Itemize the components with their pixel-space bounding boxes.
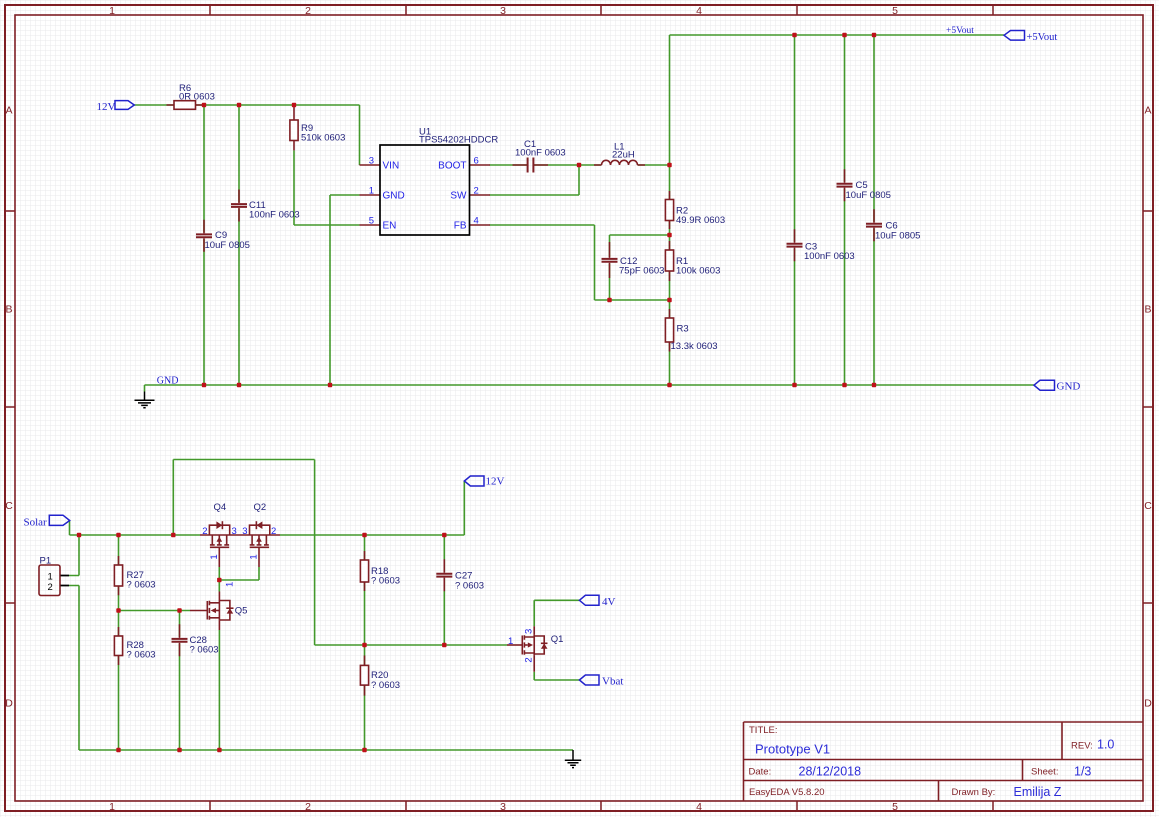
svg-text:1.0: 1.0 <box>1097 738 1114 752</box>
junction C11/12V rail <box>237 103 241 107</box>
junction C28 gate node <box>177 608 181 612</box>
label C3 and value <box>804 242 855 263</box>
capacitor C27 <box>436 559 452 591</box>
junction C27 bottom node <box>442 643 446 647</box>
svg-text:Prototype V1: Prototype V1 <box>755 742 830 757</box>
svg-text:100nF 0603: 100nF 0603 <box>804 251 855 262</box>
inductor L1 <box>594 160 645 165</box>
ground symbol left <box>135 392 155 408</box>
wire P1 pin1 to Solar rail <box>69 535 79 576</box>
svg-text:4V: 4V <box>602 596 616 608</box>
svg-text:3: 3 <box>500 801 506 813</box>
junction C3 top rail <box>792 33 796 37</box>
junction C27 Solar rail <box>442 533 446 537</box>
svg-text:Drawn By:: Drawn By: <box>952 787 996 798</box>
svg-text:100nF 0603: 100nF 0603 <box>515 148 566 159</box>
svg-text:10uF 0805: 10uF 0805 <box>846 190 891 201</box>
junction Q4-Q2 gates <box>217 578 221 582</box>
svg-text:3: 3 <box>369 156 374 167</box>
svg-text:TITLE:: TITLE: <box>749 725 778 736</box>
label C27 and value <box>455 571 484 592</box>
svg-text:Q5: Q5 <box>235 606 248 617</box>
capacitor C6 <box>866 209 882 241</box>
junction C6 top rail <box>872 33 876 37</box>
label R1 and value <box>676 256 720 277</box>
svg-text:GND: GND <box>1057 380 1081 392</box>
transistor Q4 <box>200 521 280 567</box>
svg-text:100nF 0603: 100nF 0603 <box>249 210 300 221</box>
wire loop Q4 drain to Q1 gate <box>173 460 507 646</box>
connector P1 <box>39 565 69 596</box>
junction R28 bottom rail <box>116 748 120 752</box>
net flag 12V top <box>115 101 134 110</box>
resistor R2 <box>665 191 673 229</box>
svg-text:VIN: VIN <box>383 161 400 172</box>
label R28 and value <box>127 640 156 661</box>
label C28 and value <box>190 635 219 656</box>
wire C27 branch <box>443 535 445 645</box>
svg-text:12V: 12V <box>97 101 116 113</box>
svg-text:A: A <box>1144 105 1151 117</box>
frame column labels bottom <box>109 801 898 813</box>
transistor Q2 <box>250 521 270 567</box>
wire P1 pin2 to bottom rail <box>69 586 79 751</box>
capacitor C1 <box>513 158 549 173</box>
svg-text:10uF 0805: 10uF 0805 <box>875 231 920 242</box>
svg-text:D: D <box>1144 698 1152 710</box>
label L1 and value <box>612 142 635 161</box>
pin numbers Q4 <box>202 526 237 560</box>
junction C5 top rail <box>842 33 846 37</box>
pin numbers U1 <box>369 156 479 227</box>
label C5 and value <box>846 180 891 201</box>
junction R27-R28 gate node <box>116 608 120 612</box>
label R27 and value <box>127 570 156 591</box>
junction R2-R1-C12 node <box>667 233 671 237</box>
svg-text:R3: R3 <box>677 324 689 335</box>
label C11 and value <box>249 200 300 221</box>
svg-text:75pF 0603: 75pF 0603 <box>619 266 664 277</box>
wire C6 branch <box>873 35 875 385</box>
net flag Solar <box>49 515 69 525</box>
svg-text:1: 1 <box>225 582 236 587</box>
IC U1 pin stubs <box>360 165 491 225</box>
svg-text:P1: P1 <box>40 556 52 567</box>
svg-text:12V: 12V <box>486 476 505 488</box>
resistor R28 <box>114 627 122 665</box>
svg-text:1: 1 <box>369 186 374 197</box>
net flag +5Vout <box>1004 31 1025 41</box>
svg-text:0R 0603: 0R 0603 <box>179 92 215 103</box>
wire Q4 Q2 gate tie <box>219 567 259 580</box>
frame column labels top <box>109 5 898 17</box>
junction C3 GND rail <box>792 383 796 387</box>
junction C9/12V rail <box>202 103 206 107</box>
svg-text:Q4: Q4 <box>214 502 227 513</box>
svg-text:SW: SW <box>450 191 467 202</box>
junction loop Solar rail <box>171 533 175 537</box>
svg-text:FB: FB <box>454 221 467 232</box>
pin numbers Q1 <box>508 629 535 663</box>
svg-text:2: 2 <box>271 526 276 537</box>
svg-text:Date:: Date: <box>749 767 772 778</box>
svg-text:Sheet:: Sheet: <box>1031 767 1058 778</box>
capacitor C9 <box>196 220 212 252</box>
svg-text:? 0603: ? 0603 <box>190 645 219 656</box>
title block texts <box>749 725 1093 798</box>
svg-text:2: 2 <box>474 186 479 197</box>
label C1 and value <box>515 139 566 159</box>
junction C11 GND rail <box>237 383 241 387</box>
wire 4V net <box>534 600 579 626</box>
capacitor C28 <box>172 624 188 656</box>
wire U1 GND pin to ground rail <box>330 195 360 385</box>
svg-text:2: 2 <box>305 5 311 17</box>
junction R20 bottom rail <box>362 748 366 752</box>
svg-text:B: B <box>5 304 12 316</box>
frame row labels right <box>1144 105 1152 710</box>
wire R18 R20 branch <box>364 535 366 750</box>
junction R3 GND rail <box>667 383 671 387</box>
transistor Q1 <box>507 626 548 672</box>
svg-text:1: 1 <box>109 5 115 17</box>
junction C12 bottom node <box>607 298 611 302</box>
svg-text:Emilija Z: Emilija Z <box>1014 785 1062 799</box>
ground symbol bottom <box>565 750 581 768</box>
svg-text:Q1: Q1 <box>551 634 564 645</box>
svg-text:+5Vout: +5Vout <box>946 26 974 36</box>
svg-text:C: C <box>5 500 13 512</box>
svg-text:5: 5 <box>369 216 374 227</box>
IC U1 body box <box>380 145 470 235</box>
svg-text:EN: EN <box>383 221 397 232</box>
svg-text:? 0603: ? 0603 <box>127 650 156 661</box>
capacitor C11 <box>231 190 247 222</box>
svg-text:C: C <box>1144 500 1152 512</box>
label R2 and value <box>676 206 725 227</box>
net flag Vbat <box>579 675 599 685</box>
junction R18 Solar rail <box>362 533 366 537</box>
svg-text:D: D <box>5 698 13 710</box>
junction R27 Solar rail <box>116 533 120 537</box>
svg-text:EasyEDA V5.8.20: EasyEDA V5.8.20 <box>749 787 825 798</box>
svg-text:Q2: Q2 <box>254 502 267 513</box>
pin names U1 <box>383 161 468 232</box>
svg-text:22uH: 22uH <box>612 150 635 161</box>
junction C9 GND rail <box>202 383 206 387</box>
svg-text:510k 0603: 510k 0603 <box>301 133 345 144</box>
junction Q5 source bottom rail <box>217 748 221 752</box>
svg-text:4: 4 <box>696 801 702 813</box>
svg-text:? 0603: ? 0603 <box>127 580 156 591</box>
resistor R9 <box>290 105 298 150</box>
junction R1-R3-FB node <box>667 298 671 302</box>
svg-text:BOOT: BOOT <box>438 161 466 172</box>
svg-text:B: B <box>1144 304 1151 316</box>
wire +5V divider chain vertical <box>669 165 671 385</box>
svg-text:2: 2 <box>305 801 311 813</box>
wire Q5 drain up to gate node <box>218 580 220 592</box>
wire C3 branch <box>794 35 796 385</box>
svg-text:1: 1 <box>48 572 53 583</box>
svg-text:1: 1 <box>109 801 115 813</box>
svg-text:GND: GND <box>157 375 179 386</box>
svg-text:2: 2 <box>202 526 207 537</box>
net flag GND right <box>1034 380 1055 390</box>
wire Q5 source to bottom rail <box>218 630 220 750</box>
svg-text:4: 4 <box>474 216 479 227</box>
svg-text:4: 4 <box>696 5 702 17</box>
label R6 and value <box>179 83 215 103</box>
wire FB net <box>490 225 670 300</box>
label R20 and value <box>371 670 400 691</box>
svg-text:GND: GND <box>383 191 405 202</box>
net flag 4V <box>579 595 599 605</box>
junction Solar flag node <box>77 533 81 537</box>
svg-text:2: 2 <box>524 657 535 662</box>
svg-text:? 0603: ? 0603 <box>371 680 400 691</box>
svg-text:TPS54202HDDCR: TPS54202HDDCR <box>419 135 498 146</box>
wire Q5 gate net <box>119 610 191 612</box>
svg-text:1: 1 <box>249 554 260 559</box>
svg-text:6: 6 <box>474 156 479 167</box>
svg-text:+5Vout: +5Vout <box>1027 32 1058 43</box>
wire net 12V top rail <box>134 105 360 165</box>
svg-text:13.3k 0603: 13.3k 0603 <box>671 341 718 352</box>
label R18 and value <box>371 566 400 587</box>
wire GND rail <box>145 385 1035 392</box>
wire C9 branch <box>203 105 205 385</box>
label R3 and value <box>671 324 718 353</box>
wire C5 branch <box>844 35 846 385</box>
svg-text:5: 5 <box>892 5 898 17</box>
svg-text:5: 5 <box>892 801 898 813</box>
svg-text:28/12/2018: 28/12/2018 <box>799 765 862 779</box>
resistor R20 <box>360 656 368 696</box>
resistor R18 <box>360 551 368 591</box>
junction C28 bottom rail <box>177 748 181 752</box>
label U1 and value <box>419 127 498 146</box>
junction C6 GND rail <box>872 383 876 387</box>
wire SW node <box>490 165 580 195</box>
resistor R6 <box>167 101 204 110</box>
svg-text:2: 2 <box>48 582 53 593</box>
resistor R1 <box>665 241 673 281</box>
junction R9/12V rail <box>292 103 296 107</box>
capacitor C5 <box>837 169 853 201</box>
label C6 and value <box>875 221 920 242</box>
wire R27 R28 branch <box>118 535 120 750</box>
wire SW to L1 and +5V node <box>579 164 670 166</box>
frame row labels left <box>5 105 13 710</box>
junction C5 GND rail <box>842 383 846 387</box>
svg-text:3: 3 <box>524 629 535 634</box>
svg-text:A: A <box>5 105 12 117</box>
svg-text:3: 3 <box>242 526 247 537</box>
junction SW-C1-L1 node <box>577 163 581 167</box>
svg-text:1: 1 <box>209 554 220 559</box>
junction U1-GND rail <box>328 383 332 387</box>
wire R9 to EN net <box>294 150 360 225</box>
label R9 and value <box>301 123 345 144</box>
svg-text:1: 1 <box>508 636 513 647</box>
wire C11 branch <box>238 105 240 385</box>
wire +5Vout top rail <box>670 35 1005 165</box>
svg-text:100k 0603: 100k 0603 <box>676 266 720 277</box>
wire BOOT to C1 <box>490 164 580 166</box>
transistor Q5 <box>190 592 234 631</box>
svg-text:Vbat: Vbat <box>602 675 623 687</box>
wire C28 branch <box>179 611 181 751</box>
capacitor C3 <box>787 229 803 261</box>
wire Vbat net <box>534 672 579 680</box>
capacitor C12 <box>602 242 618 278</box>
net flag 12V bottom <box>464 476 484 486</box>
pin numbers Q5 <box>225 582 236 587</box>
junction L1 out +5V node <box>667 163 671 167</box>
wire Solar net <box>70 481 465 535</box>
pin numbers P1 <box>48 572 53 594</box>
resistor R3 <box>665 309 673 352</box>
svg-text:49.9R 0603: 49.9R 0603 <box>676 215 725 226</box>
svg-text:3: 3 <box>232 526 237 537</box>
svg-text:? 0603: ? 0603 <box>371 576 400 587</box>
pin numbers Q2 <box>242 526 276 560</box>
svg-text:? 0603: ? 0603 <box>455 581 484 592</box>
junction R18-R20 node <box>362 643 366 647</box>
svg-text:Solar: Solar <box>24 516 48 528</box>
resistor R27 <box>114 556 122 595</box>
svg-text:10uF 0805: 10uF 0805 <box>205 240 250 251</box>
title block lines <box>744 722 1144 801</box>
svg-text:REV:: REV: <box>1071 741 1093 752</box>
label C9 and value <box>205 230 250 251</box>
wire bottom rail <box>79 749 573 751</box>
svg-text:3: 3 <box>500 5 506 17</box>
label C12 and value <box>619 256 664 277</box>
wire C12 branch <box>610 235 670 300</box>
svg-text:1/3: 1/3 <box>1074 765 1091 779</box>
